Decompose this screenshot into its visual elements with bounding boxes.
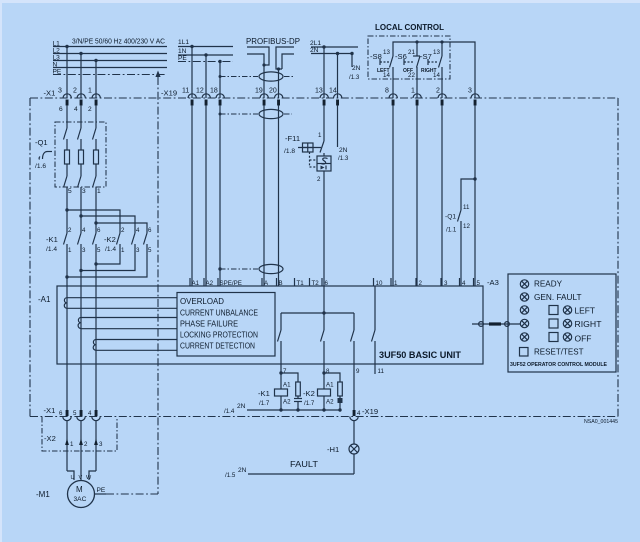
svg-text:/1.7: /1.7 [259,400,270,407]
svg-text:10: 10 [376,280,383,287]
svg-text:9: 9 [356,368,360,375]
wire 2L1 to X19-13 [323,47,325,98]
wire X19-19 to unit pin A [263,105,265,286]
node N rail [53,62,168,69]
wire X19-2 to unit pin3 [441,105,443,286]
svg-text:-Q1: -Q1 [35,138,48,147]
wire phase2 through CT2 [80,328,82,410]
svg-text:-X1: -X1 [44,89,56,98]
wire phase1 K1 to A1 [66,244,68,298]
wire pin6 to relay rail [281,286,354,315]
svg-text:A2: A2 [206,280,214,287]
wire X19-14 to 2N ref [338,105,349,162]
node L2 rail [53,48,168,56]
lamp READY [520,279,562,289]
svg-text:2L1: 2L1 [310,40,321,47]
svg-text:PHASE FAILURE: PHASE FAILURE [180,320,238,329]
svg-text:3AC: 3AC [74,496,87,503]
svg-text:A1: A1 [283,382,291,389]
svg-text:21: 21 [408,49,415,56]
svg-text:LOCAL CONTROL: LOCAL CONTROL [375,23,444,32]
button RESET/TEST [520,347,584,357]
lamp row OFF [520,333,591,344]
motor M1 [36,471,106,508]
svg-text:11: 11 [378,368,385,375]
svg-text:-K1: -K1 [46,235,58,244]
svg-text:-H1: -H1 [327,445,339,454]
svg-text:1: 1 [68,247,72,254]
terminal X19-3 [468,87,479,105]
wire X19-3 to unit pin5 [474,105,476,286]
svg-text:-M1: -M1 [36,490,50,499]
connector pin X2-1 [65,439,74,449]
cabinet boundary top dash-dot [30,97,618,99]
terminal X19-20 [269,87,283,105]
operator module connector cable [472,322,520,327]
wire 1L1 to X19-11 [191,47,193,99]
svg-text:2N: 2N [339,147,348,154]
svg-text:/1.7: /1.7 [304,400,315,407]
svg-text:2N: 2N [352,65,361,72]
wire phase2 K1 to A1 [80,244,82,318]
contactor K2 contacts [104,227,152,254]
svg-text:6: 6 [59,106,63,113]
svg-text:2: 2 [84,441,88,448]
pushbutton S6 OFF [395,42,420,98]
wire 1N to X19-12 [205,55,207,98]
svg-text:6: 6 [59,410,63,417]
svg-text:11: 11 [182,87,189,94]
svg-text:B: B [279,280,283,287]
svg-text:5: 5 [477,280,481,287]
relay contact pin10 to pin11 [372,286,376,374]
svg-text:CURRENT DETECTION: CURRENT DETECTION [180,342,255,351]
breaker Q1 pole 1 [64,105,70,210]
relay contact to pin7 [278,313,282,364]
wire PE equipotential vertical [155,71,160,495]
terminal X1-4 [88,410,100,421]
svg-text:LEFT: LEFT [575,306,596,316]
svg-text:13: 13 [433,49,440,56]
svg-text:SPE/PE: SPE/PE [220,280,242,287]
operator module A3 box [508,274,616,372]
label Q1 pins 6 4 2 [59,106,92,113]
svg-text:/1.8: /1.8 [284,148,295,155]
svg-text:19: 19 [255,87,263,94]
svg-text:14: 14 [329,87,337,94]
svg-text:M: M [76,485,83,494]
RD suppressor K2 [324,373,343,412]
svg-text:-F11: -F11 [285,134,300,143]
breaker Q1 pole 2 [78,105,84,216]
node 1L1 rail [178,39,233,48]
svg-text:-X1: -X1 [44,406,56,415]
message box [177,293,275,357]
svg-text:READY: READY [534,279,562,289]
terminal X19-1 [411,87,421,105]
basic unit bottom pin labels [283,368,384,375]
svg-text:T2: T2 [312,280,320,287]
svg-text:T1: T1 [297,280,305,287]
svg-text:OFF: OFF [403,68,413,74]
svg-text:18: 18 [210,87,218,94]
basic unit top pin labels [190,278,481,287]
circuit breaker Q1 enclosure [55,122,106,187]
cabinet boundary right dash-dot [617,98,619,417]
breaker Q1 pole 3 [93,105,99,223]
svg-text:13: 13 [383,49,390,56]
svg-text:-X19: -X19 [362,407,378,416]
pushbutton S8 LEFT [370,49,393,98]
svg-text:1: 1 [394,280,398,287]
shield symbol middle cable [219,109,293,118]
wire X19-1 to unit pin2 [416,105,418,286]
svg-text:11: 11 [463,204,470,211]
svg-text:/1.1: /1.1 [446,227,457,234]
svg-text:-S6: -S6 [395,52,407,61]
svg-text:OFF: OFF [575,334,592,344]
terminal X19-2 [436,87,446,105]
label Q1 [35,138,52,170]
svg-text:3UF52 OPERATOR CONTROL MODULE: 3UF52 OPERATOR CONTROL MODULE [510,362,607,368]
svg-text:2: 2 [88,106,92,113]
relay contact to pin9 [351,313,355,364]
svg-text:3: 3 [99,441,103,448]
lamp row LEFT [520,306,595,316]
node L3 rail [53,55,168,63]
svg-text:W: W [86,475,92,481]
svg-text:4: 4 [462,280,466,287]
svg-text:8: 8 [326,368,330,375]
svg-text:7: 7 [283,368,287,375]
terminal X19-4 [350,407,378,421]
svg-text:/1.4: /1.4 [46,246,57,253]
svg-text:12: 12 [463,223,470,230]
wire X19-18 to unit pin SPE/PE [219,105,221,286]
svg-text:4: 4 [357,410,361,417]
svg-text:-X19: -X19 [161,89,177,98]
terminal X19-13 [315,87,328,105]
svg-text:1: 1 [318,132,322,139]
svg-text:3/N/PE 50/60 Hz 400/230 V AC: 3/N/PE 50/60 Hz 400/230 V AC [72,39,165,46]
svg-text:A2: A2 [283,399,291,406]
shield symbol at SPE/PE [218,264,283,273]
cabinet boundary left dash-dot [29,98,31,417]
svg-text:6: 6 [97,227,101,234]
svg-text:A2: A2 [326,399,334,406]
node K2 feed taps [65,208,147,233]
fuse F11 [284,105,331,286]
svg-text:5: 5 [148,247,152,254]
svg-text:5: 5 [97,247,101,254]
svg-text:4: 4 [136,227,140,234]
basic unit A1 box [57,286,483,364]
svg-text:GEN. FAULT: GEN. FAULT [534,292,582,302]
RC suppressor K1 [281,373,302,412]
contactor coil K1 [258,364,291,412]
svg-text:3: 3 [82,247,86,254]
svg-text:1: 1 [97,188,101,195]
lamp row RIGHT [520,319,601,329]
wire X19-20 to unit pin B [278,105,280,286]
wire X19-8 to unit pin1 [392,105,394,286]
svg-text:3: 3 [82,188,86,195]
terminal X19-8 [385,87,397,105]
terminal X1-3 [58,87,71,105]
svg-text:PROFIBUS-DP: PROFIBUS-DP [246,37,300,46]
svg-text:13: 13 [315,87,323,94]
wire phase1 through CT1 [66,308,68,410]
svg-text:3UF50 BASIC UNIT: 3UF50 BASIC UNIT [379,350,462,360]
svg-text:20: 20 [269,87,277,94]
terminal X1-5 [73,410,85,421]
node 2L1 rail [310,40,358,49]
connector X2 boundary [42,417,117,451]
wire PE to X19-18 [219,62,221,99]
svg-text:-X2: -X2 [44,434,56,443]
svg-text:12: 12 [196,87,204,94]
breaker auxiliary contact Q1 [445,177,477,286]
svg-text:-A1: -A1 [38,295,51,304]
wire local control feed line [393,40,475,98]
svg-text:U: U [71,475,75,481]
svg-text:OVERLOAD: OVERLOAD [180,297,224,306]
terminal X19-19 [255,87,268,105]
svg-text:RIGHT: RIGHT [575,319,602,329]
connector pin X2-2 [79,439,88,449]
svg-text:6: 6 [325,280,329,287]
svg-text:1N: 1N [178,48,187,55]
node 2N rail [310,47,354,55]
svg-text:4: 4 [74,106,78,113]
shield symbol upper cable [219,72,295,81]
svg-text:1: 1 [121,247,125,254]
wire phase3 through CT3 [95,350,97,410]
svg-text:-S7: -S7 [420,52,432,61]
svg-text:CURRENT UNBALANCE: CURRENT UNBALANCE [180,309,258,318]
svg-text:6: 6 [148,227,152,234]
svg-text:/1.3: /1.3 [338,155,349,162]
connector pin X2-3 [94,439,103,449]
terminal X1-2 [73,87,85,105]
svg-text:/1.3: /1.3 [349,74,360,81]
svg-text:LOCKING PROTECTION: LOCKING PROTECTION [180,331,258,340]
contactor coil K2 [303,364,334,412]
svg-text:4: 4 [88,410,92,417]
svg-text:2N: 2N [238,467,247,474]
svg-text:RESET/TEST: RESET/TEST [534,347,584,357]
svg-text:PE: PE [97,487,106,494]
svg-text:-K2: -K2 [104,235,116,244]
terminal X19-12 [196,87,210,105]
svg-text:2: 2 [68,227,72,234]
wire phase3 K1 to A1 [95,244,97,340]
svg-text:1L1: 1L1 [178,39,189,46]
terminal X19-11 [182,87,196,105]
svg-text:2: 2 [121,227,125,234]
svg-text:/1.5: /1.5 [225,472,236,479]
relay contact to pin8 [321,313,325,364]
terminal X1-6 [59,410,71,421]
svg-text:4: 4 [82,227,86,234]
lamp GEN. FAULT [520,292,581,302]
svg-text:/1.6: /1.6 [35,163,46,170]
svg-text:FAULT: FAULT [290,460,318,469]
node 1N rail [178,48,233,57]
terminal X19-14 [329,87,342,105]
local control enclosure box [368,36,450,79]
svg-text:-K1: -K1 [258,389,270,398]
terminal X19-18 [210,87,224,105]
wire pin9 to X19-4 [353,364,355,410]
svg-text:3: 3 [468,87,472,94]
svg-text:3: 3 [136,247,140,254]
cabinet boundary bottom dash-dot [30,416,618,418]
svg-text:NSA0_001445: NSA0_001445 [584,419,618,425]
svg-text:LEFT: LEFT [377,68,390,74]
svg-text:2: 2 [419,280,423,287]
wire X19-11 to unit pin A1 [191,105,193,286]
wire X1-4 to motor W [95,421,97,471]
svg-text:1: 1 [70,441,74,448]
svg-text:2: 2 [73,87,77,94]
wire X1-5 to motor V [80,421,82,480]
terminal X1-1 [88,87,100,105]
svg-text:A1: A1 [192,280,200,287]
contactor K1 contacts [46,210,101,254]
wire K2 crossover [65,244,147,279]
wire L3 to X1-1 [95,61,97,99]
svg-text:-K2: -K2 [303,389,315,398]
svg-text:RIGHT: RIGHT [421,68,437,74]
svg-text:A1: A1 [326,382,334,389]
wire L2 to X1-2 [80,54,82,99]
wire motor PE dash-dot [106,493,158,495]
svg-text:/1.4: /1.4 [105,246,116,253]
wire PROFIBUS bus line A [247,47,269,67]
wire X19-12 to unit pin A2 [205,105,207,286]
wire X1-6 to motor U [66,421,68,471]
node PE rail [53,69,168,76]
svg-text:2: 2 [317,176,321,183]
current transformer CT2 [78,318,177,329]
svg-text:2N: 2N [237,403,246,410]
svg-text:/1.4: /1.4 [224,408,235,415]
svg-text:8: 8 [385,87,389,94]
svg-text:2: 2 [436,87,440,94]
svg-text:3: 3 [444,280,448,287]
current transformer CT1 [64,298,177,309]
wire PROFIBUS drop A to X19-19 [263,65,265,98]
wire fault 2N line [225,460,354,479]
current transformer CT3 [93,340,177,351]
svg-text:-A3: -A3 [487,278,499,287]
node PE rail (control) [178,55,233,63]
svg-text:5: 5 [73,410,77,417]
node 2N coil return rail [224,403,340,415]
wire 2N stub to /1.3 [349,54,361,82]
wire 2N to X19-14 [337,54,339,99]
node L1 rail [53,41,168,49]
svg-text:3: 3 [58,87,62,94]
signal lamp H1 [327,421,359,474]
svg-text:-Q1: -Q1 [445,214,456,221]
wire L1 to X1-3 [66,47,68,99]
wire PROFIBUS drop B to X19-20 [278,69,280,98]
label Q1 pins 5 3 1 [68,188,101,195]
svg-text:1: 1 [88,87,92,94]
pushbutton S7 RIGHT [420,42,442,98]
svg-text:1: 1 [411,87,415,94]
wire PROFIBUS bus line B [276,47,294,71]
svg-text:5: 5 [68,188,72,195]
